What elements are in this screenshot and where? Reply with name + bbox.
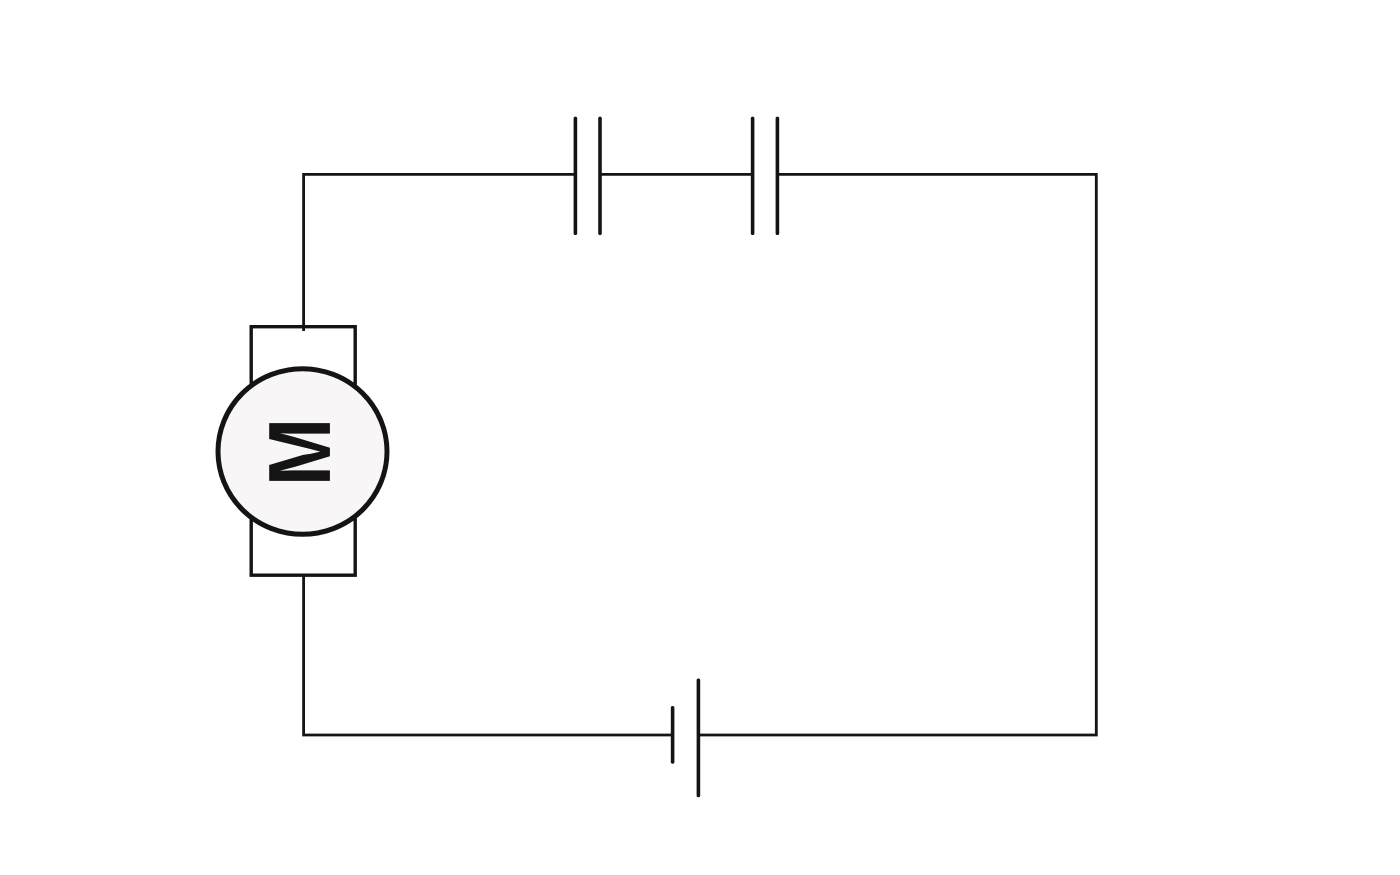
wire: C2 to top-right corner down to battery positive	[698, 174, 1096, 735]
motor frame rectangle	[251, 327, 355, 576]
battery positive (long) plate	[697, 680, 701, 795]
capacitor C2 left plate	[751, 118, 755, 233]
capacitor C1 right plate	[598, 118, 602, 233]
wire: between C1 and C2	[600, 173, 753, 176]
wire stub entering motor frame	[302, 327, 305, 331]
capacitor C1 left plate	[574, 118, 578, 233]
wire: battery negative to bottom-left corner up to motor bottom	[304, 572, 673, 735]
motor letter M (rotated 90 deg CCW)	[269, 423, 330, 481]
wire: top-left L segment (motor top to cap C1)	[304, 174, 576, 330]
battery negative (short) plate	[671, 708, 675, 762]
motor circle	[218, 369, 387, 535]
capacitor C2 right plate	[776, 118, 780, 233]
